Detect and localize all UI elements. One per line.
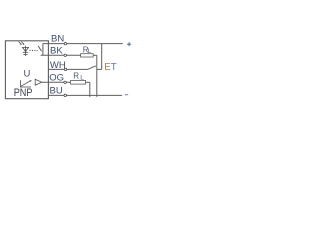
svg-text:R: R (73, 72, 79, 81)
svg-text:PNP: PNP (14, 87, 33, 99)
svg-text:WH: WH (50, 60, 66, 71)
svg-text:BN: BN (51, 33, 64, 44)
svg-text:OG: OG (49, 73, 64, 84)
svg-text:L: L (88, 48, 92, 55)
svg-text:L: L (80, 74, 84, 81)
svg-text:U: U (24, 69, 31, 80)
svg-text:BU: BU (50, 85, 63, 96)
svg-text:ET: ET (104, 62, 116, 73)
svg-text:BK: BK (50, 45, 63, 56)
